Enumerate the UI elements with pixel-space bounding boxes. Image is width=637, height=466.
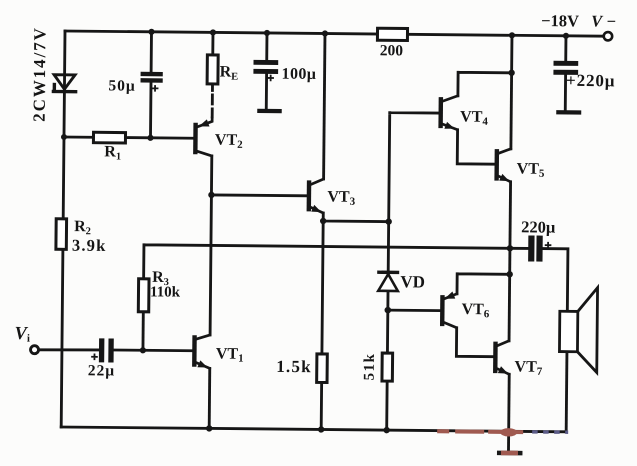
svg-text:1.5k: 1.5k: [276, 357, 312, 376]
svg-text:RE: RE: [220, 63, 239, 82]
svg-text:R2: R2: [74, 218, 91, 237]
svg-text:220μ: 220μ: [521, 217, 556, 236]
svg-text:Vi: Vi: [14, 324, 30, 345]
svg-text:VT2: VT2: [215, 132, 243, 151]
svg-text:VT4: VT4: [460, 109, 488, 128]
svg-text:+220μ: +220μ: [566, 71, 616, 90]
svg-text:3.9k: 3.9k: [72, 236, 107, 255]
svg-text:110k: 110k: [150, 284, 181, 300]
svg-text:100μ: 100μ: [282, 66, 317, 83]
svg-text:VD: VD: [400, 272, 425, 291]
svg-text:V: V: [591, 12, 604, 31]
svg-text:−: −: [607, 12, 617, 31]
svg-text:VT5: VT5: [517, 161, 545, 180]
svg-text:R1: R1: [104, 143, 121, 162]
svg-text:22μ: 22μ: [88, 362, 115, 379]
svg-text:−18V: −18V: [541, 11, 579, 30]
svg-text:2CW14/7V: 2CW14/7V: [30, 26, 50, 122]
svg-text:200: 200: [380, 42, 404, 59]
svg-text:50μ: 50μ: [108, 77, 135, 94]
svg-text:51k: 51k: [362, 353, 378, 381]
svg-text:VT6: VT6: [462, 301, 490, 320]
svg-text:VT3: VT3: [327, 189, 355, 208]
svg-text:VT7: VT7: [514, 359, 542, 378]
svg-text:VT1: VT1: [216, 345, 244, 364]
